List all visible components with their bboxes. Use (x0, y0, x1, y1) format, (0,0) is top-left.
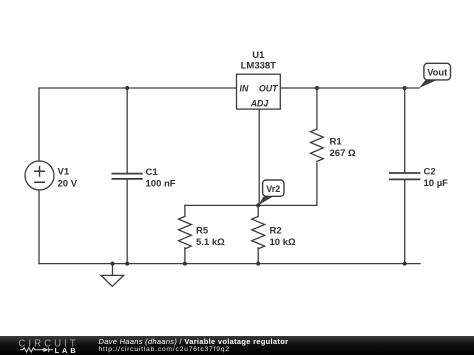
svg-text:ADJ: ADJ (250, 99, 270, 109)
capacitor C1 (112, 174, 142, 179)
svg-text:R1: R1 (330, 137, 343, 148)
svg-text:R5: R5 (196, 226, 209, 237)
svg-text:5.1 kΩ: 5.1 kΩ (196, 237, 225, 248)
wire from V1 plus terminal up and across to U1 IN pin (39, 88, 237, 161)
wire C2 top lead (404, 88, 406, 173)
junction ground (111, 262, 115, 266)
node Vr2 flag (258, 180, 284, 205)
ground (101, 264, 124, 287)
junction node Vr2 (256, 203, 260, 207)
junction C1 top (125, 86, 129, 90)
junction C1 bottom (125, 262, 129, 266)
wire from V1 minus terminal down to ground rail (38, 190, 40, 264)
voltage source V1 (25, 161, 54, 190)
CircuitLab logo (0, 336, 95, 355)
svg-text:IN: IN (240, 83, 249, 93)
wire C1 bottom lead (126, 179, 128, 263)
resistor R5 (179, 216, 192, 248)
value label C2 10 uF (424, 167, 449, 190)
junction R2 bottom (256, 262, 260, 266)
wire U1 ADJ pin down to node Vr2 (258, 109, 260, 205)
svg-text:C2: C2 (424, 167, 436, 178)
wire bottom ground rail (39, 263, 420, 265)
wire R2 bottom lead (257, 248, 259, 264)
node Vout flag (419, 63, 451, 88)
svg-text:LAB: LAB (55, 346, 79, 355)
svg-text:OUT: OUT (259, 83, 278, 93)
svg-text:267 Ω: 267 Ω (330, 148, 356, 159)
wire from U1 OUT pin to Vout flag (280, 87, 419, 89)
resistor R2 (252, 216, 265, 248)
value label R5 5.1 k (196, 226, 225, 249)
wire R1 top lead from output net (316, 88, 318, 129)
resistor R1 (311, 129, 324, 161)
svg-text:V1: V1 (58, 167, 70, 178)
wire C1 top lead (126, 88, 128, 173)
svg-text:Vout: Vout (427, 67, 447, 77)
svg-text:Vr2: Vr2 (266, 184, 280, 194)
junction C2 top / Vout (403, 86, 407, 90)
value label R2 10 k (270, 226, 296, 249)
svg-text:U1: U1 (252, 50, 265, 61)
value label C1 100 nF (146, 167, 176, 190)
svg-text:10 µF: 10 µF (424, 178, 449, 189)
svg-text:C1: C1 (146, 167, 159, 178)
capacitor C2 (390, 173, 420, 179)
wire R1 bottom lead to node Vr2 (316, 163, 318, 205)
footer bar (0, 336, 474, 355)
svg-text:LM338T: LM338T (241, 61, 277, 72)
junction R1 top (315, 86, 319, 90)
svg-text:R2: R2 (270, 226, 282, 237)
wire R2 top lead (257, 205, 259, 216)
svg-text:10 kΩ: 10 kΩ (270, 237, 296, 248)
op-amp U1 LM338T regulator box (237, 50, 281, 109)
credit text (99, 338, 289, 346)
url text (99, 347, 230, 354)
value label V1 20 V (58, 167, 78, 190)
wire R5 bottom lead (184, 248, 186, 264)
wire C2 bottom lead (404, 179, 406, 263)
svg-text:100 nF: 100 nF (146, 179, 176, 190)
value label R1 267 ohm (330, 137, 356, 160)
wire R5 top lead (184, 205, 186, 216)
junction R5 bottom (183, 262, 187, 266)
svg-text:20 V: 20 V (58, 179, 78, 190)
junction C2 bottom (403, 262, 407, 266)
wire node Vr2 horizontal from R5 top to R1 bottom (185, 204, 317, 206)
